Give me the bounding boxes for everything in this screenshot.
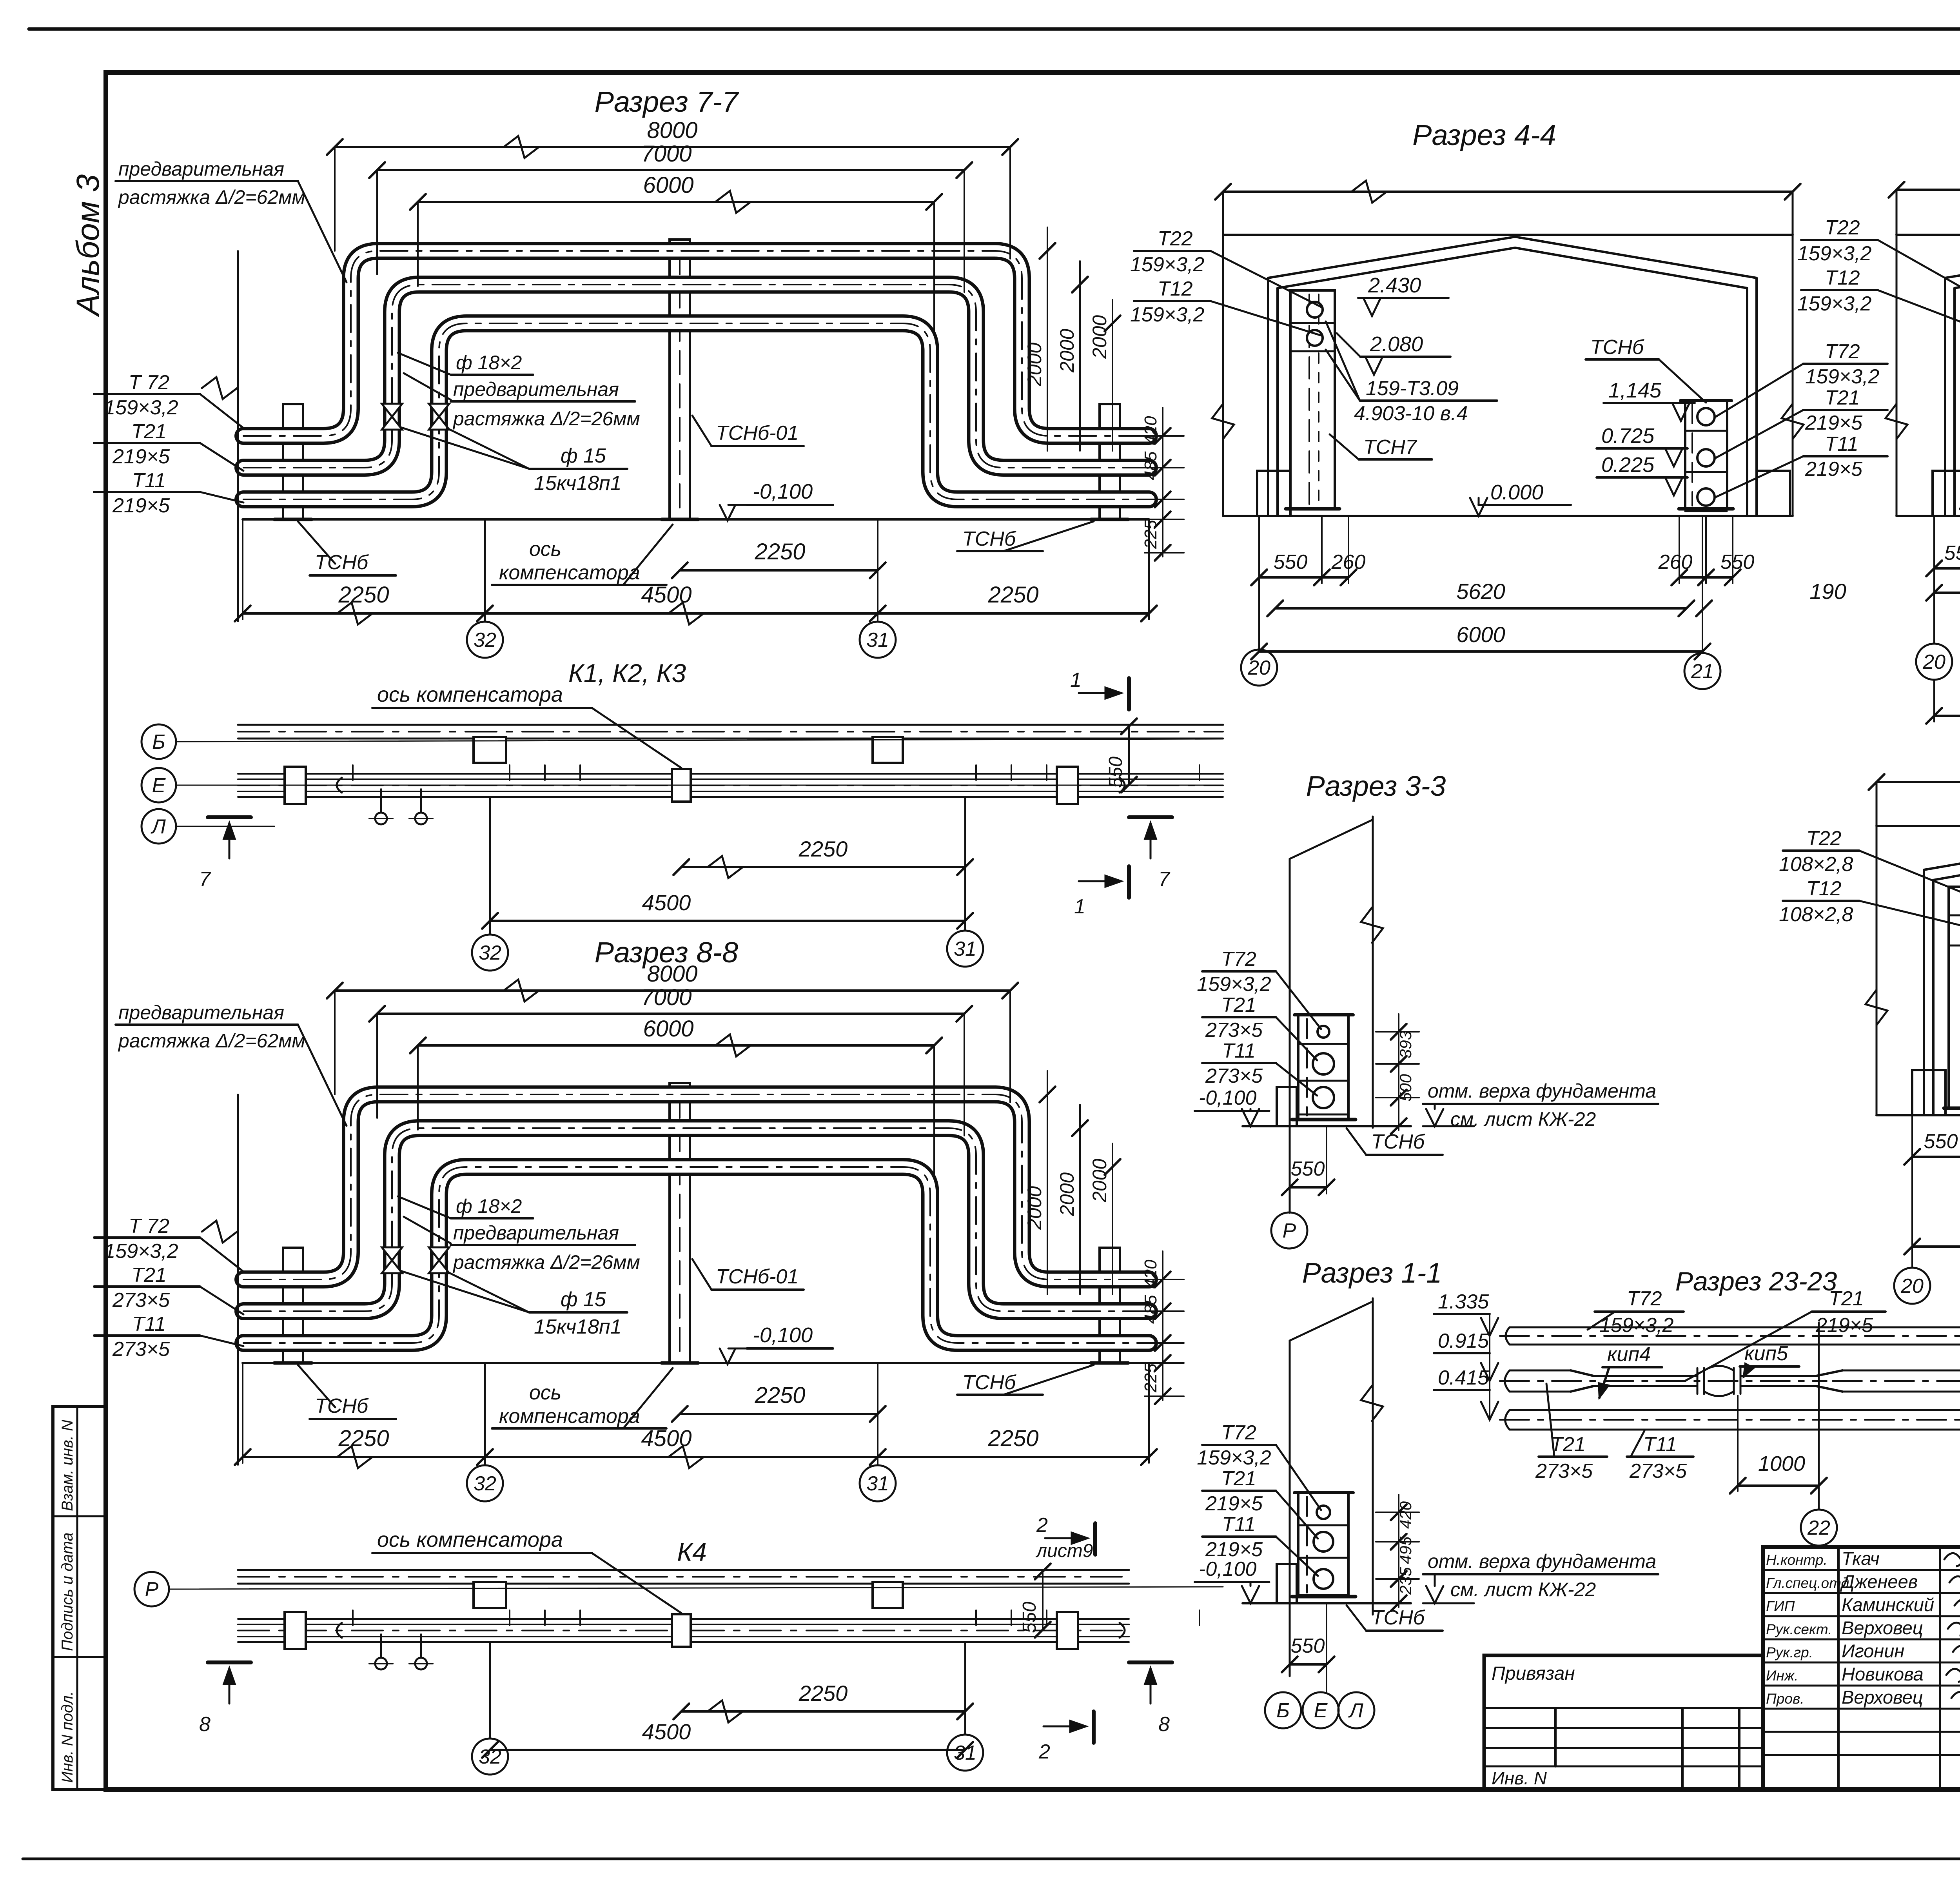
svg-text:0.000: 0.000 [1490, 481, 1543, 504]
svg-text:Инж.: Инж. [1766, 1668, 1798, 1684]
svg-text:190: 190 [1809, 579, 1846, 604]
svg-text:159×3,2: 159×3,2 [1805, 365, 1879, 388]
svg-text:Новикова: Новикова [1842, 1664, 1924, 1684]
svg-text:Т21: Т21 [131, 420, 167, 443]
svg-text:Рук.гр.: Рук.гр. [1766, 1644, 1813, 1660]
svg-text:159×3,2: 159×3,2 [1797, 242, 1871, 265]
svg-text:2000: 2000 [1024, 1186, 1045, 1230]
svg-text:Т22: Т22 [1806, 827, 1842, 850]
svg-text:Инв. N подл.: Инв. N подл. [59, 1691, 76, 1783]
svg-text:485: 485 [1141, 451, 1160, 480]
svg-text:4500: 4500 [642, 890, 691, 915]
svg-text:Н.контр.: Н.контр. [1766, 1552, 1828, 1568]
svg-text:Т72: Т72 [1221, 948, 1256, 971]
svg-text:420: 420 [1141, 416, 1160, 445]
svg-text:260: 260 [1658, 551, 1693, 573]
svg-text:31: 31 [954, 938, 976, 960]
svg-text:1000: 1000 [1758, 1452, 1805, 1475]
svg-text:31: 31 [954, 1742, 976, 1764]
svg-text:ТСНб: ТСНб [315, 1395, 369, 1417]
svg-text:159×3,2: 159×3,2 [104, 1240, 178, 1263]
svg-text:1: 1 [1070, 669, 1082, 691]
svg-text:219×5: 219×5 [1805, 458, 1863, 481]
svg-text:6000: 6000 [1456, 622, 1505, 647]
svg-text:Подпись и дата: Подпись и дата [59, 1532, 76, 1651]
svg-text:Разрез 4-4: Разрез 4-4 [1412, 119, 1556, 151]
svg-text:К4: К4 [677, 1537, 707, 1566]
svg-text:219×5: 219×5 [112, 494, 170, 517]
svg-text:ф 15: ф 15 [561, 1288, 606, 1311]
svg-text:500: 500 [1396, 1074, 1415, 1102]
svg-text:7: 7 [199, 868, 211, 891]
svg-text:Верховец: Верховец [1842, 1687, 1923, 1708]
svg-text:ось: ось [529, 538, 561, 561]
svg-text:2250: 2250 [338, 582, 389, 608]
svg-text:485: 485 [1141, 1295, 1160, 1324]
svg-text:ТСНб-01: ТСНб-01 [716, 422, 799, 445]
svg-text:Р: Р [145, 1578, 159, 1601]
svg-text:Т11: Т11 [1825, 433, 1858, 455]
svg-text:32: 32 [474, 1472, 496, 1495]
svg-text:Разрез 1-1: Разрез 1-1 [1302, 1258, 1442, 1289]
svg-text:Взам. инв. N: Взам. инв. N [59, 1420, 76, 1511]
svg-text:7000: 7000 [641, 985, 691, 1010]
svg-text:31: 31 [866, 1472, 889, 1495]
svg-text:159×3,2: 159×3,2 [104, 396, 178, 419]
svg-text:Дженеев: Дженеев [1840, 1571, 1918, 1592]
svg-text:Т 72: Т 72 [129, 1215, 169, 1238]
svg-text:159×3,2: 159×3,2 [1599, 1314, 1673, 1337]
svg-text:ТСН7: ТСН7 [1363, 436, 1417, 459]
svg-text:Т21: Т21 [1221, 994, 1256, 1016]
svg-text:32: 32 [479, 1746, 501, 1768]
svg-text:219×5: 219×5 [1815, 1314, 1873, 1337]
svg-text:компенсатора: компенсатора [499, 561, 640, 584]
svg-text:ГИП: ГИП [1766, 1598, 1795, 1614]
svg-text:2250: 2250 [987, 1426, 1038, 1451]
svg-text:393: 393 [1396, 1031, 1415, 1058]
svg-text:растяжка Δ/2=26мм: растяжка Δ/2=26мм [452, 1251, 640, 1273]
svg-text:Т72: Т72 [1627, 1287, 1662, 1310]
svg-text:Т12: Т12 [1806, 877, 1842, 900]
svg-text:219×5: 219×5 [1205, 1492, 1263, 1515]
svg-text:20: 20 [1922, 651, 1945, 673]
svg-text:2250: 2250 [754, 539, 805, 564]
svg-text:Т21: Т21 [1829, 1287, 1864, 1310]
svg-text:2000: 2000 [1024, 343, 1045, 387]
svg-text:7000: 7000 [641, 141, 691, 167]
svg-text:1,145: 1,145 [1608, 379, 1662, 402]
svg-text:273×5: 273×5 [112, 1338, 170, 1361]
svg-text:2250: 2250 [799, 837, 848, 861]
svg-text:8000: 8000 [647, 118, 697, 143]
svg-text:предварительная: предварительная [453, 1222, 619, 1244]
svg-text:Т11: Т11 [1222, 1513, 1256, 1536]
svg-text:8000: 8000 [647, 961, 697, 987]
svg-text:159×3,2: 159×3,2 [1197, 1446, 1271, 1469]
svg-text:15кч18п1: 15кч18п1 [534, 1316, 622, 1338]
svg-text:-0,100: -0,100 [1199, 1087, 1257, 1109]
svg-text:отм. верха фундамента: отм. верха фундамента [1428, 1550, 1656, 1572]
svg-text:Л: Л [1348, 1699, 1363, 1722]
svg-text:предварительная: предварительная [118, 158, 284, 180]
svg-text:Т22: Т22 [1825, 216, 1860, 239]
svg-text:7: 7 [1158, 868, 1171, 891]
svg-text:Гл.спец.отд: Гл.спец.отд [1766, 1575, 1849, 1591]
svg-text:К1, К2, К3: К1, К2, К3 [568, 659, 686, 688]
svg-text:32: 32 [474, 629, 496, 651]
svg-text:0.415: 0.415 [1438, 1366, 1489, 1389]
svg-text:Игонин: Игонин [1842, 1640, 1904, 1661]
svg-text:0.915: 0.915 [1438, 1330, 1489, 1352]
svg-text:Б: Б [152, 731, 165, 753]
svg-text:273×5: 273×5 [1629, 1460, 1687, 1483]
svg-text:-0,100: -0,100 [1199, 1558, 1257, 1581]
svg-text:225: 225 [1141, 1363, 1160, 1393]
svg-text:420: 420 [1396, 1501, 1415, 1529]
svg-text:219×5: 219×5 [1805, 412, 1863, 434]
svg-text:550: 550 [1944, 542, 1960, 564]
svg-text:2: 2 [1038, 1740, 1050, 1763]
svg-text:Ткач: Ткач [1842, 1548, 1880, 1569]
svg-text:273×5: 273×5 [1535, 1460, 1593, 1483]
svg-text:273×5: 273×5 [1205, 1019, 1263, 1042]
svg-text:Пров.: Пров. [1766, 1691, 1804, 1707]
svg-text:Т72: Т72 [1221, 1421, 1256, 1444]
svg-text:Т12: Т12 [1825, 267, 1860, 289]
svg-text:Р: Р [1283, 1219, 1296, 1242]
svg-text:ТСНб: ТСНб [1371, 1606, 1425, 1629]
svg-text:495: 495 [1396, 1536, 1415, 1564]
svg-text:273×5: 273×5 [112, 1289, 170, 1312]
svg-text:5620: 5620 [1456, 579, 1505, 604]
svg-text:0.225: 0.225 [1601, 453, 1655, 477]
svg-text:Т11: Т11 [1643, 1433, 1677, 1456]
svg-text:159×3,2: 159×3,2 [1130, 303, 1204, 326]
svg-text:550: 550 [1291, 1635, 1325, 1657]
svg-text:компенсатора: компенсатора [499, 1405, 640, 1428]
svg-text:Б: Б [1276, 1699, 1290, 1722]
svg-text:21: 21 [1691, 660, 1714, 683]
svg-text:159×3,2: 159×3,2 [1197, 973, 1271, 996]
svg-text:1: 1 [1074, 895, 1085, 918]
svg-text:Л: Л [151, 815, 166, 838]
svg-text:225: 225 [1141, 520, 1160, 549]
svg-text:Каминский: Каминский [1842, 1594, 1934, 1615]
svg-text:ось компенсатора: ось компенсатора [377, 683, 563, 706]
svg-text:2000: 2000 [1089, 1159, 1111, 1203]
svg-text:159×3,2: 159×3,2 [1797, 292, 1871, 315]
svg-text:Т12: Т12 [1158, 278, 1193, 300]
svg-text:ТСНб: ТСНб [315, 551, 369, 574]
svg-text:Т22: Т22 [1158, 227, 1193, 250]
svg-text:Привязан: Привязан [1492, 1663, 1575, 1684]
svg-text:2250: 2250 [799, 1681, 848, 1706]
svg-text:1.335: 1.335 [1438, 1290, 1489, 1313]
svg-text:235: 235 [1396, 1567, 1415, 1595]
svg-text:0.725: 0.725 [1601, 424, 1655, 448]
svg-text:2250: 2250 [338, 1426, 389, 1451]
svg-text:Т 72: Т 72 [129, 371, 169, 394]
svg-text:Разрез 23-23: Разрез 23-23 [1675, 1267, 1837, 1296]
svg-text:Разрез 3-3: Разрез 3-3 [1306, 771, 1446, 802]
svg-text:550: 550 [1274, 551, 1308, 573]
svg-text:4500: 4500 [642, 1719, 691, 1744]
svg-text:108×2,8: 108×2,8 [1779, 853, 1853, 876]
svg-text:2: 2 [1036, 1514, 1048, 1537]
svg-text:108×2,8: 108×2,8 [1779, 903, 1853, 926]
svg-text:6000: 6000 [643, 1016, 693, 1042]
svg-text:15кч18п1: 15кч18п1 [534, 472, 622, 495]
svg-text:2.430: 2.430 [1368, 274, 1421, 297]
svg-text:ТСНб: ТСНб [1371, 1131, 1425, 1153]
svg-text:растяжка Δ/2=62мм: растяжка Δ/2=62мм [118, 186, 305, 208]
svg-text:Т11: Т11 [132, 1313, 166, 1336]
svg-text:2.080: 2.080 [1370, 332, 1423, 356]
svg-text:8: 8 [1158, 1713, 1170, 1736]
svg-text:273×5: 273×5 [1205, 1065, 1263, 1087]
svg-text:20: 20 [1900, 1275, 1924, 1297]
svg-text:550: 550 [1105, 757, 1126, 788]
svg-text:ось: ось [529, 1381, 561, 1404]
svg-text:420: 420 [1141, 1259, 1160, 1288]
svg-text:Рук.сект.: Рук.сект. [1766, 1621, 1832, 1637]
svg-text:159-Т3.09: 159-Т3.09 [1366, 377, 1459, 400]
svg-text:Инв. N: Инв. N [1492, 1768, 1547, 1788]
svg-text:Е: Е [1314, 1699, 1328, 1722]
svg-text:Т21: Т21 [1825, 387, 1860, 409]
svg-text:550: 550 [1291, 1158, 1325, 1180]
svg-text:ф 18×2: ф 18×2 [456, 352, 522, 374]
svg-text:лист9: лист9 [1035, 1541, 1093, 1561]
svg-text:2000: 2000 [1056, 1172, 1078, 1216]
svg-text:550: 550 [1019, 1602, 1040, 1633]
svg-text:ось компенсатора: ось компенсатора [377, 1528, 563, 1552]
svg-text:Разрез 7-7: Разрез 7-7 [595, 85, 740, 118]
svg-text:32: 32 [479, 942, 501, 964]
svg-text:ТСНб: ТСНб [962, 528, 1016, 550]
svg-text:Т72: Т72 [1825, 340, 1860, 363]
svg-text:2000: 2000 [1089, 315, 1111, 359]
svg-text:Е: Е [152, 774, 166, 797]
svg-text:растяжка Δ/2=62мм: растяжка Δ/2=62мм [118, 1030, 305, 1052]
svg-text:Т21: Т21 [1221, 1467, 1256, 1490]
svg-text:-0,100: -0,100 [753, 480, 813, 503]
svg-text:кип4: кип4 [1607, 1343, 1651, 1366]
svg-text:31: 31 [866, 629, 889, 651]
svg-text:550: 550 [1720, 551, 1755, 573]
svg-text:предварительная: предварительная [118, 1002, 284, 1023]
svg-text:растяжка Δ/2=26мм: растяжка Δ/2=26мм [452, 408, 640, 430]
svg-text:2250: 2250 [754, 1383, 805, 1408]
svg-text:219×5: 219×5 [1205, 1538, 1263, 1561]
svg-text:Т11: Т11 [1222, 1040, 1256, 1062]
svg-text:отм. верха фундамента: отм. верха фундамента [1428, 1080, 1656, 1102]
svg-text:Т21: Т21 [1550, 1433, 1586, 1456]
svg-text:предварительная: предварительная [453, 378, 619, 400]
svg-text:4.903-10 в.4: 4.903-10 в.4 [1354, 402, 1468, 425]
svg-text:159×3,2: 159×3,2 [1130, 253, 1204, 276]
svg-text:6000: 6000 [643, 172, 693, 198]
svg-text:ТСНб: ТСНб [962, 1371, 1016, 1394]
svg-text:219×5: 219×5 [112, 445, 170, 468]
svg-text:22: 22 [1807, 1517, 1830, 1539]
svg-text:-0,100: -0,100 [753, 1323, 813, 1347]
svg-text:Т11: Т11 [132, 469, 166, 492]
svg-text:2250: 2250 [987, 582, 1038, 608]
svg-text:ф 18×2: ф 18×2 [456, 1195, 522, 1217]
svg-text:Т21: Т21 [131, 1264, 167, 1287]
svg-text:ф 15: ф 15 [561, 445, 606, 467]
svg-text:ТСНб: ТСНб [1590, 336, 1644, 359]
svg-text:Альбом 3: Альбом 3 [70, 174, 106, 318]
svg-text:550: 550 [1924, 1130, 1958, 1153]
svg-text:2000: 2000 [1056, 329, 1078, 373]
svg-text:Верховец: Верховец [1842, 1617, 1923, 1638]
svg-text:ТСНб-01: ТСНб-01 [716, 1265, 799, 1288]
svg-text:8: 8 [199, 1713, 211, 1736]
svg-text:см. лист КЖ-22: см. лист КЖ-22 [1450, 1579, 1596, 1601]
